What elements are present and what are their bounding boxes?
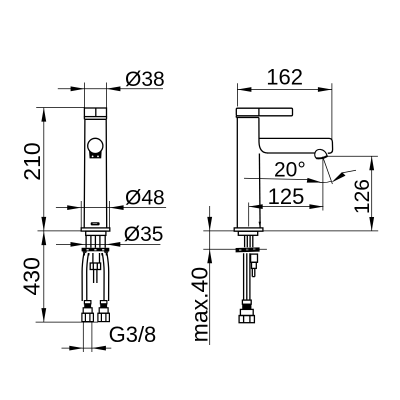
svg-text:162: 162 bbox=[266, 64, 303, 89]
svg-text:20°: 20° bbox=[274, 158, 306, 181]
svg-text:Ø38: Ø38 bbox=[125, 68, 165, 91]
svg-text:126: 126 bbox=[351, 179, 374, 214]
svg-text:210: 210 bbox=[19, 142, 45, 180]
svg-text:Ø48: Ø48 bbox=[125, 186, 165, 209]
svg-text:G3/8: G3/8 bbox=[109, 322, 157, 347]
svg-text:max.40: max.40 bbox=[186, 267, 212, 342]
svg-text:Ø35: Ø35 bbox=[124, 223, 164, 246]
svg-text:430: 430 bbox=[19, 257, 45, 295]
svg-text:125: 125 bbox=[268, 184, 305, 209]
